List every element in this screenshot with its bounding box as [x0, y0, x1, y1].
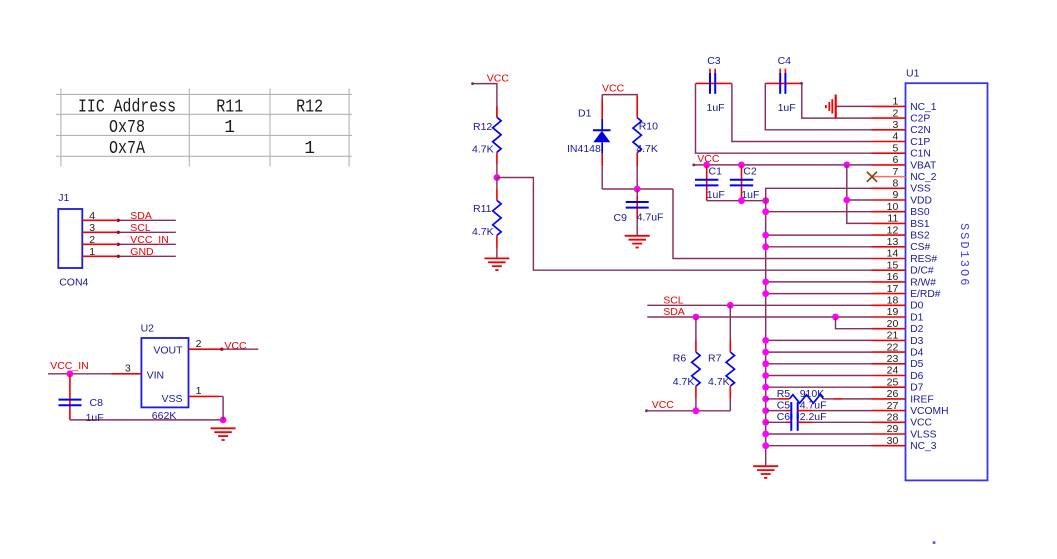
svg-text:24: 24: [887, 365, 899, 377]
svg-text:4: 4: [892, 131, 898, 143]
svg-text:IREF: IREF: [910, 394, 933, 405]
svg-text:25: 25: [887, 376, 899, 388]
svg-text:D1: D1: [910, 312, 923, 323]
svg-text:E/RD#: E/RD#: [910, 289, 941, 300]
svg-text:R11: R11: [216, 98, 243, 118]
svg-text:VOUT: VOUT: [153, 345, 183, 357]
svg-text:14: 14: [887, 248, 899, 260]
svg-text:VCC: VCC: [910, 418, 932, 429]
svg-text:R6: R6: [673, 353, 687, 365]
svg-text:13: 13: [887, 236, 899, 248]
svg-text:22: 22: [887, 341, 899, 353]
svg-text:C2P: C2P: [910, 114, 930, 125]
svg-text:29: 29: [887, 423, 899, 435]
svg-text:D7: D7: [910, 383, 923, 394]
svg-text:IN4148: IN4148: [567, 143, 601, 155]
svg-text:21: 21: [887, 330, 899, 342]
svg-text:SCL: SCL: [663, 294, 684, 306]
svg-text:SCL: SCL: [130, 222, 151, 234]
svg-text:VSS: VSS: [910, 184, 931, 195]
svg-text:23: 23: [887, 353, 899, 365]
svg-text:D5: D5: [910, 359, 923, 370]
svg-text:VCC: VCC: [224, 340, 247, 352]
svg-text:4.7K: 4.7K: [673, 376, 695, 388]
svg-text:VBAT: VBAT: [910, 160, 937, 171]
svg-text:Ox7A: Ox7A: [109, 139, 145, 159]
svg-text:10: 10: [887, 201, 899, 213]
svg-text:D/C#: D/C#: [910, 266, 934, 277]
svg-text:VCOMH: VCOMH: [910, 406, 948, 417]
svg-text:4.7uF: 4.7uF: [637, 212, 664, 224]
svg-text:VCC_IN: VCC_IN: [130, 234, 169, 246]
svg-text:NC_2: NC_2: [910, 172, 937, 183]
svg-text:C4: C4: [778, 55, 792, 67]
svg-text:1uF: 1uF: [86, 412, 104, 424]
svg-text:16: 16: [887, 271, 899, 283]
svg-text:3: 3: [89, 222, 95, 234]
svg-text:4.7uF: 4.7uF: [800, 400, 827, 412]
svg-text:VCC: VCC: [487, 73, 510, 85]
svg-text:18: 18: [887, 295, 899, 307]
svg-text:19: 19: [887, 306, 899, 318]
svg-text:BS2: BS2: [910, 231, 930, 242]
svg-text:CON4: CON4: [59, 277, 88, 289]
svg-text:4.7K: 4.7K: [472, 144, 494, 156]
svg-text:2.2uF: 2.2uF: [800, 411, 827, 423]
svg-text:VIN: VIN: [147, 370, 165, 382]
svg-text:20: 20: [887, 318, 899, 330]
svg-text:17: 17: [887, 283, 899, 295]
svg-text:VLSS: VLSS: [910, 429, 936, 440]
svg-text:1uF: 1uF: [707, 189, 725, 201]
svg-text:4.7K: 4.7K: [472, 226, 494, 238]
svg-text:R/W#: R/W#: [910, 277, 936, 288]
svg-text:15: 15: [887, 259, 899, 271]
svg-text:C1N: C1N: [910, 149, 931, 160]
svg-text:1: 1: [89, 246, 95, 258]
svg-text:C1P: C1P: [910, 137, 930, 148]
svg-text:BS0: BS0: [910, 207, 930, 218]
svg-text:4: 4: [89, 210, 95, 222]
svg-text:28: 28: [887, 412, 899, 424]
svg-text:SDA: SDA: [663, 306, 685, 318]
svg-text:30: 30: [887, 435, 899, 447]
svg-text:VDD: VDD: [910, 195, 932, 206]
svg-text:D0: D0: [910, 301, 923, 312]
svg-text:IIC Address: IIC Address: [78, 98, 176, 118]
svg-text:2: 2: [196, 338, 202, 350]
svg-text:VCC_IN: VCC_IN: [50, 360, 89, 372]
svg-text:C2N: C2N: [910, 125, 931, 136]
svg-text:C5: C5: [777, 400, 791, 412]
svg-text:R12: R12: [296, 98, 323, 118]
svg-text:11: 11: [887, 213, 898, 225]
svg-text:U2: U2: [141, 322, 155, 334]
svg-text:D2: D2: [910, 324, 923, 335]
svg-text:NC_1: NC_1: [910, 102, 937, 113]
svg-text:R5: R5: [777, 388, 791, 400]
svg-text:C1: C1: [709, 166, 723, 178]
svg-text:1: 1: [196, 385, 202, 397]
svg-text:12: 12: [887, 224, 899, 236]
svg-text:RES#: RES#: [910, 254, 937, 265]
svg-text:2: 2: [89, 234, 95, 246]
svg-text:D6: D6: [910, 371, 923, 382]
svg-text:3: 3: [125, 363, 131, 375]
svg-text:C8: C8: [90, 397, 104, 409]
svg-text:C9: C9: [614, 212, 628, 224]
svg-text:GND: GND: [130, 246, 154, 258]
svg-text:VCC: VCC: [652, 399, 675, 411]
svg-text:R11: R11: [473, 203, 492, 215]
svg-text:27: 27: [887, 400, 899, 412]
svg-text:4.7K: 4.7K: [636, 143, 658, 155]
svg-text:U1: U1: [906, 68, 920, 80]
svg-text:9: 9: [892, 189, 898, 201]
svg-text:C3: C3: [707, 55, 721, 67]
svg-text:D3: D3: [910, 336, 923, 347]
svg-text:1: 1: [892, 96, 898, 108]
svg-text:C6: C6: [777, 411, 791, 423]
svg-text:7: 7: [892, 166, 898, 178]
svg-text:4.7K: 4.7K: [708, 376, 730, 388]
svg-text:Ox78: Ox78: [109, 118, 145, 138]
svg-text:R10: R10: [639, 120, 658, 132]
svg-text:3: 3: [892, 119, 898, 131]
svg-text:J1: J1: [58, 192, 69, 204]
svg-text:26: 26: [887, 388, 899, 400]
svg-text:1: 1: [224, 118, 235, 138]
svg-text:6: 6: [892, 154, 898, 166]
svg-text:BS1: BS1: [910, 219, 930, 230]
svg-text:R12: R12: [473, 121, 492, 133]
svg-text:R7: R7: [708, 353, 722, 365]
svg-text:SDA: SDA: [130, 210, 152, 222]
svg-text:D1: D1: [578, 108, 592, 120]
svg-text:VSS: VSS: [161, 393, 182, 405]
svg-text:CS#: CS#: [910, 242, 930, 253]
svg-text:VCC: VCC: [602, 82, 625, 94]
svg-text:1: 1: [304, 139, 315, 159]
svg-text:2: 2: [892, 107, 898, 119]
svg-text:8: 8: [892, 178, 898, 190]
svg-text:D4: D4: [910, 348, 923, 359]
svg-text:1uF: 1uF: [778, 102, 796, 114]
svg-text:1uF: 1uF: [707, 102, 725, 114]
svg-text:910K: 910K: [800, 388, 825, 400]
svg-text:C2: C2: [743, 166, 757, 178]
svg-text:NC_3: NC_3: [910, 441, 937, 452]
svg-text:SSD13O6: SSD13O6: [957, 223, 971, 287]
svg-text:5: 5: [892, 142, 898, 154]
